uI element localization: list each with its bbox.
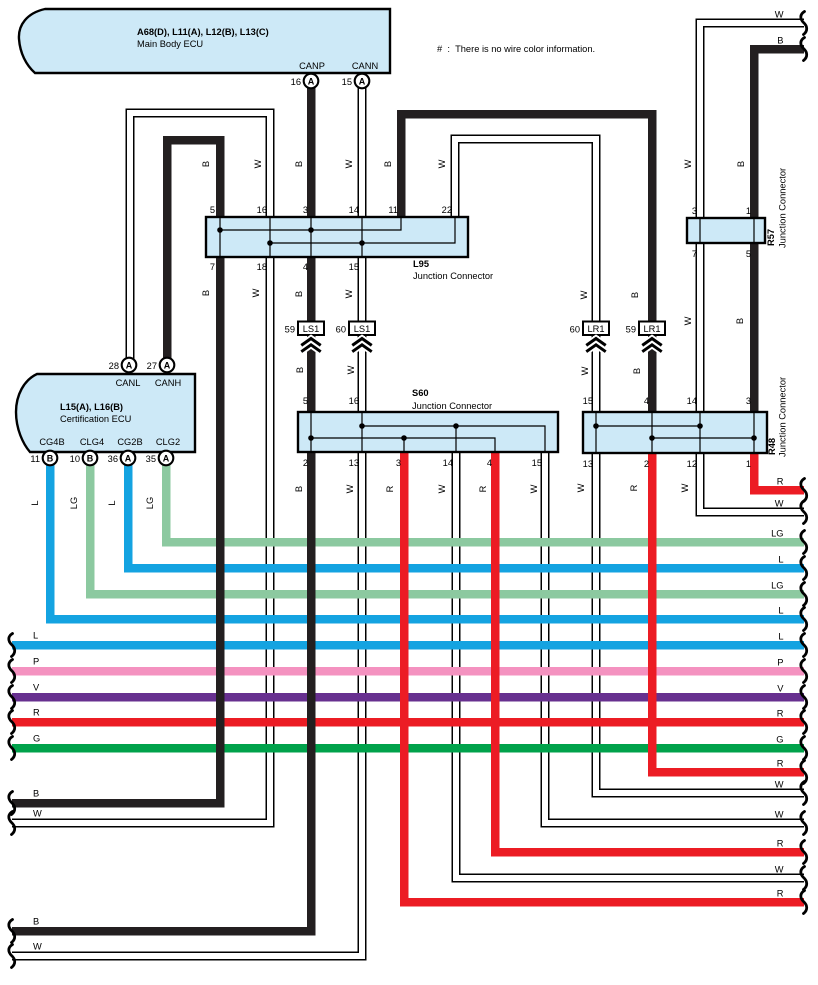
svg-text:14: 14 — [349, 205, 359, 215]
left edge wire labels — [33, 631, 42, 952]
svg-text:4: 4 — [487, 458, 492, 468]
svg-text:A: A — [125, 453, 132, 463]
wire V violet: full width — [12, 693, 804, 702]
svg-text:R: R — [478, 485, 488, 492]
svg-text:4: 4 — [303, 262, 308, 272]
svg-text:LG: LG — [145, 497, 155, 509]
svg-text:A: A — [308, 76, 315, 86]
wire LG light-green: Certification ECU pin 35 CLG2 down, right to edge — [166, 464, 804, 542]
svg-text:W: W — [683, 159, 693, 168]
splice LR1 (59) on black wire chevron arrows — [644, 339, 661, 351]
svg-text:# : There is no wire color i: # : There is no wire color information. — [437, 44, 595, 54]
svg-text:15: 15 — [532, 458, 542, 468]
svg-text:W: W — [775, 865, 784, 875]
L95 internal wires and bus bars — [220, 218, 455, 256]
svg-text:R: R — [777, 477, 784, 487]
svg-text:L: L — [778, 606, 783, 616]
svg-text:14: 14 — [443, 458, 453, 468]
svg-text:W: W — [33, 809, 42, 819]
svg-text:A: A — [359, 76, 366, 86]
svg-text:W: W — [437, 159, 447, 168]
vertical wire color labels — [30, 159, 746, 509]
svg-text:W: W — [576, 483, 586, 492]
svg-text:28: 28 — [109, 361, 119, 371]
splice LS1 (59) on black wire chevron arrows — [303, 339, 320, 351]
svg-text:R: R — [33, 708, 40, 718]
svg-text:15: 15 — [349, 262, 359, 272]
junction connector S60 box — [298, 412, 558, 452]
svg-text:S60: S60 — [412, 388, 429, 398]
svg-text:CANH: CANH — [155, 378, 181, 388]
svg-text:B: B — [294, 291, 304, 297]
svg-text:Junction Connector: Junction Connector — [778, 168, 788, 248]
svg-text:L95: L95 — [413, 259, 429, 269]
wire L blue: Certification ECU pin 36 CG2B down, right to edge — [128, 464, 804, 568]
svg-text:15: 15 — [342, 77, 352, 87]
wire break squiggles right edge — [801, 12, 807, 914]
svg-text:B: B — [736, 161, 746, 167]
svg-text:L: L — [30, 500, 40, 505]
wire R red: full width — [12, 718, 804, 727]
svg-text:13: 13 — [583, 459, 593, 469]
svg-text:G: G — [776, 735, 783, 745]
S60 internal wires and bus bars — [311, 413, 545, 451]
svg-text:R: R — [777, 759, 784, 769]
wire R red: R48 pin 1 down, right to edge — [754, 453, 804, 490]
splice LS1 (60) on white wire chevron arrows — [354, 339, 371, 351]
svg-text:A: A — [126, 360, 133, 370]
wire R red: S60 pin 3 down, right to edge — [404, 452, 804, 902]
svg-text:B: B — [632, 368, 642, 374]
svg-text:Junction Connector: Junction Connector — [412, 401, 492, 411]
svg-text:B: B — [201, 290, 211, 296]
svg-text:L: L — [33, 631, 38, 641]
svg-text:W: W — [579, 290, 589, 299]
wire white: L95 pin 22 up and over, down through splice LR1 to R48 pin 15 — [455, 139, 596, 453]
svg-text:Junction Connector: Junction Connector — [778, 377, 788, 457]
svg-text:13: 13 — [349, 458, 359, 468]
svg-text:60: 60 — [336, 325, 346, 335]
svg-text:W: W — [683, 316, 693, 325]
Main Body ECU box — [19, 9, 390, 73]
svg-text:W: W — [345, 484, 355, 493]
wire white: S60 pin 15 down, right to edge (W) — [545, 452, 804, 823]
svg-text:CLG2: CLG2 — [156, 437, 180, 447]
svg-text:CG2B: CG2B — [117, 437, 142, 447]
svg-text:W: W — [344, 289, 354, 298]
pin 28 connector circle A — [122, 358, 137, 373]
svg-text:CANP: CANP — [299, 61, 325, 71]
svg-text:B: B — [33, 917, 39, 927]
wire black: L95 pin 11 up and over, down through splice LR1 to R48 pin 4 — [401, 114, 652, 453]
svg-text:7: 7 — [692, 249, 697, 259]
svg-text:CANL: CANL — [116, 378, 141, 388]
svg-text:LG: LG — [771, 581, 783, 591]
wire L blue: full width — [12, 641, 804, 650]
svg-text:3: 3 — [303, 205, 308, 215]
wire P pink: full width — [12, 667, 804, 676]
svg-text:LS1: LS1 — [303, 324, 320, 334]
wire break squiggles left edge — [9, 634, 15, 968]
svg-text:Junction Connector: Junction Connector — [413, 271, 493, 281]
wire black: L95 pin 7 down, left to edge (B) — [12, 257, 220, 803]
svg-text:7: 7 — [210, 262, 215, 272]
wire CANP black: Main Body ECU pin 16 down to L95 pin 3 — [307, 88, 316, 217]
svg-text:14: 14 — [687, 396, 697, 406]
svg-text:B: B — [777, 36, 783, 46]
svg-text:A: A — [163, 453, 170, 463]
svg-text:CANN: CANN — [352, 61, 378, 71]
svg-text:W: W — [344, 159, 354, 168]
svg-text:22: 22 — [442, 205, 452, 215]
svg-text:1: 1 — [746, 206, 751, 216]
junction connector R48 box — [583, 412, 767, 453]
svg-text:B: B — [630, 292, 640, 298]
svg-text:B: B — [87, 453, 94, 463]
svg-text:5: 5 — [746, 249, 751, 259]
wire R red: R48 pin 2 down, right to edge — [652, 453, 804, 772]
pin 15 connector circle A — [355, 74, 370, 89]
svg-text:W: W — [775, 10, 784, 20]
svg-text:16: 16 — [257, 205, 267, 215]
svg-text:27: 27 — [147, 361, 157, 371]
svg-text:W: W — [437, 484, 447, 493]
L95 pin numbers — [210, 205, 452, 272]
svg-text:B: B — [735, 318, 745, 324]
svg-text:W: W — [680, 483, 690, 492]
svg-text:R57: R57 — [766, 229, 776, 246]
wire G green: full width — [12, 744, 804, 753]
splice LS1 (59) on black wire — [285, 322, 324, 336]
svg-text:59: 59 — [285, 325, 295, 335]
svg-text:CG4B: CG4B — [39, 437, 64, 447]
svg-text:B: B — [294, 161, 304, 167]
wire L blue: Certification ECU pin 11 CG4B down, right to edge — [50, 464, 804, 619]
svg-text:11: 11 — [388, 205, 398, 215]
svg-text:L15(A), L16(B): L15(A), L16(B) — [60, 402, 123, 412]
svg-text:16: 16 — [349, 396, 359, 406]
svg-text:LG: LG — [69, 497, 79, 509]
svg-text:5: 5 — [210, 205, 215, 215]
svg-text:CLG4: CLG4 — [80, 437, 104, 447]
wire white: R48 pin 13 down, right to edge (W) — [596, 453, 804, 793]
svg-text:LG: LG — [771, 529, 783, 539]
wire white: from edge (W) down through R57 pins 3/7 to R48 pin 14, pin 12 down right to edge (W) — [700, 23, 804, 512]
svg-text:A68(D), L11(A), L12(B), L13(C): A68(D), L11(A), L12(B), L13(C) — [137, 27, 269, 37]
svg-text:W: W — [580, 366, 590, 375]
svg-text:3: 3 — [746, 396, 751, 406]
splice LS1 (60) on white wire — [336, 322, 375, 336]
svg-text:B: B — [33, 789, 39, 799]
svg-text:LR1: LR1 — [643, 324, 660, 334]
R48 pin numbers — [583, 396, 751, 469]
svg-text:W: W — [775, 810, 784, 820]
svg-text:59: 59 — [626, 325, 636, 335]
svg-text:35: 35 — [146, 454, 156, 464]
svg-text:L: L — [778, 632, 783, 642]
svg-text:W: W — [529, 484, 539, 493]
svg-text:W: W — [775, 499, 784, 509]
svg-text:L: L — [107, 500, 117, 505]
wire CANH black: Certification ECU pin 27 up and over to L95 pin 5 — [167, 140, 220, 360]
svg-text:W: W — [775, 780, 784, 790]
svg-text:R: R — [777, 709, 784, 719]
svg-text:B: B — [47, 453, 54, 463]
svg-text:G: G — [33, 734, 40, 744]
svg-text:W: W — [253, 159, 263, 168]
svg-text:12: 12 — [687, 459, 697, 469]
svg-text:L: L — [778, 555, 783, 565]
svg-text:V: V — [33, 683, 40, 693]
svg-text:60: 60 — [570, 325, 580, 335]
svg-text:B: B — [201, 161, 211, 167]
svg-text:36: 36 — [108, 454, 118, 464]
svg-text:R: R — [777, 839, 784, 849]
svg-text:V: V — [777, 684, 784, 694]
svg-text:B: B — [294, 486, 304, 492]
svg-text:W: W — [33, 942, 42, 952]
svg-text:3: 3 — [692, 206, 697, 216]
wire R red: S60 pin 4 down, right to edge — [495, 452, 804, 852]
pin 11 connector circle B — [43, 451, 58, 466]
pin 10 connector circle B — [83, 451, 98, 466]
right edge wire labels — [771, 10, 784, 899]
pin 27 connector circle A — [160, 358, 175, 373]
svg-text:18: 18 — [257, 262, 267, 272]
svg-text:W: W — [251, 288, 261, 297]
junction connector L95 box — [206, 217, 468, 257]
pin 35 connector circle A — [159, 451, 174, 466]
svg-text:Certification ECU: Certification ECU — [60, 414, 131, 424]
wire white: L95 pin 18 down, left to edge (W) — [12, 257, 270, 823]
svg-text:2: 2 — [644, 459, 649, 469]
svg-text:5: 5 — [303, 396, 308, 406]
R57 internal wires — [700, 219, 754, 242]
wire CANL white: Certification ECU pin 28 up and over to L95 pin 16 — [130, 113, 270, 360]
svg-text:16: 16 — [291, 77, 301, 87]
svg-text:Main Body ECU: Main Body ECU — [137, 39, 203, 49]
svg-text:R: R — [777, 889, 784, 899]
splice LR1 (60) on white wire — [570, 322, 609, 336]
wire black: L95 pin 4 through splice LS1 and S60 pin 5/2 down, left to edge (B) — [12, 257, 311, 931]
svg-text:R: R — [629, 484, 639, 491]
svg-text:A: A — [164, 360, 171, 370]
svg-text:15: 15 — [583, 396, 593, 406]
pin 16 connector circle A — [304, 74, 319, 89]
svg-text:P: P — [33, 657, 39, 667]
svg-text:B: B — [295, 367, 305, 373]
svg-text:4: 4 — [644, 396, 649, 406]
svg-text:10: 10 — [70, 454, 80, 464]
wire CANN white: Main Body ECU pin 15 down to L95 pin 14 — [358, 88, 367, 217]
pin 36 connector circle A — [121, 451, 136, 466]
wire white: S60 pin 14 down, right to edge (W) — [456, 452, 804, 878]
R57 pin numbers — [692, 206, 751, 259]
svg-text:2: 2 — [303, 458, 308, 468]
svg-text:B: B — [383, 161, 393, 167]
R48 internal wires and bus bars — [596, 413, 754, 452]
svg-text:W: W — [346, 365, 356, 374]
wire white: L95 pin 15 through splice LS1 and S60 pin 16/13 down, left to edge (W) — [12, 257, 362, 956]
svg-text:P: P — [777, 658, 783, 668]
svg-text:3: 3 — [396, 458, 401, 468]
Certification ECU box — [16, 374, 195, 452]
svg-text:1: 1 — [746, 459, 751, 469]
svg-text:R: R — [385, 485, 395, 492]
svg-text:11: 11 — [30, 454, 40, 464]
svg-text:R48: R48 — [767, 438, 777, 455]
S60 pin numbers — [303, 396, 542, 468]
splice LR1 (59) on black wire — [626, 322, 665, 336]
wire black: from edge (B) down through R57 pins 1/5 to R48 pin 3 — [754, 49, 804, 453]
svg-text:LS1: LS1 — [354, 324, 371, 334]
splice LR1 (60) on white wire chevron arrows — [588, 339, 605, 351]
wire LG light-green: Certification ECU pin 10 CLG4 down, right to edge — [90, 464, 804, 594]
svg-text:LR1: LR1 — [587, 324, 604, 334]
junction connector R57 box — [687, 218, 765, 243]
